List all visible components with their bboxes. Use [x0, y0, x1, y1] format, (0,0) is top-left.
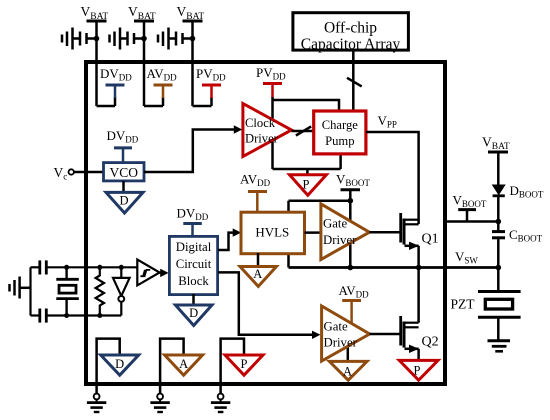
charge pump U2 [314, 111, 366, 154]
svg-text:D: D [115, 357, 124, 371]
block digital circuit [169, 236, 217, 294]
supply V_BAT right bar [488, 152, 508, 186]
node osc top junctions [64, 265, 124, 270]
label C_BOOT [509, 227, 543, 244]
wire gate driver 2 ground stub [347, 340, 350, 362]
svg-text:P: P [241, 357, 248, 371]
wire HVLS to gate driver 1 [305, 231, 322, 234]
svg-text:Gate: Gate [324, 320, 348, 334]
wire digital block to HVLS [218, 228, 241, 250]
svg-text:Pump: Pump [325, 134, 354, 148]
svg-text:Gate: Gate [323, 216, 347, 230]
svg-text:Driver: Driver [324, 335, 358, 349]
op-amp gate driver 1 [321, 204, 370, 260]
wire VCO to clock driver [144, 125, 242, 172]
diode D_BOOT [493, 185, 505, 222]
capacitor C top [31, 260, 138, 274]
wire crystal left rail [29, 267, 31, 315]
svg-text:P: P [414, 363, 421, 377]
off-chip capacitor array box [293, 13, 409, 53]
ground A triangle HVLS [240, 253, 276, 286]
wire clock driver to charge pump [292, 130, 315, 133]
supply DV_DD top [97, 66, 133, 106]
battery B1 V_BAT [62, 21, 107, 106]
supply AV_DD gate driver 2 [339, 283, 370, 332]
ground D triangle digital block [175, 294, 212, 326]
supply AV_DD HVLS [240, 172, 271, 213]
wire P ground rail [273, 153, 341, 176]
label V_BAT 1 [81, 4, 109, 22]
ground P triangle Q2 [399, 360, 438, 380]
svg-text:Digital: Digital [176, 240, 212, 254]
label Q2 [422, 335, 439, 350]
terminal V_c [54, 165, 104, 182]
transistor Q1 [369, 213, 419, 268]
resistor R1 [96, 267, 104, 315]
svg-text:Off-chip: Off-chip [324, 20, 377, 37]
wire digital block to gate driver 2 [218, 272, 320, 339]
supply PV_DD top [193, 66, 227, 106]
svg-text:Q1: Q1 [422, 232, 439, 247]
supply DV_DD VCO [107, 128, 139, 162]
svg-text:A: A [179, 357, 188, 371]
label PZT [451, 297, 476, 312]
battery B2 V_BAT [110, 21, 155, 106]
block HVLS [241, 212, 305, 254]
label Q1 [422, 232, 439, 247]
svg-text:Block: Block [178, 274, 209, 288]
label V_BAT right [482, 135, 510, 153]
bus slash on array wire [347, 78, 362, 87]
supply PV_DD clock driver [256, 65, 286, 98]
label V_BOOT right [453, 193, 487, 210]
transistor Q2 [370, 268, 419, 362]
supply AV_DD top [144, 66, 177, 106]
crystal X1 [56, 267, 79, 315]
svg-text:D: D [119, 194, 128, 208]
supply V_BOOT internal [336, 172, 370, 201]
svg-text:Driver: Driver [245, 131, 279, 145]
node V_BOOT cap junction [496, 219, 502, 225]
svg-text:Q2: Q2 [422, 335, 439, 350]
schmitt trigger U4 [137, 260, 168, 286]
supply V_BOOT right bar [458, 210, 476, 222]
ground rotated crystal [10, 277, 31, 299]
battery B3 V_BAT [158, 21, 203, 106]
svg-text:A: A [343, 364, 352, 378]
pin ground D bottom [87, 339, 139, 412]
wire V_BOOT out of chip [444, 220, 498, 223]
label V_PP [378, 113, 397, 130]
wire PV_DD rail behind clock driver [271, 97, 274, 169]
svg-text:D: D [189, 306, 198, 320]
block VCO [104, 163, 145, 181]
wire V_BOOT rail [289, 199, 351, 202]
label V_BAT 3 [177, 4, 205, 22]
pin ground A bottom [150, 339, 202, 412]
wire PV rail to charge pump top [273, 100, 340, 111]
bus slash clock to pump [296, 126, 311, 135]
supply DV_DD digital block [177, 206, 209, 237]
ground earth PZT [488, 341, 511, 352]
svg-text:Charge: Charge [322, 118, 359, 132]
svg-text:HVLS: HVLS [255, 225, 289, 240]
chip border [86, 62, 445, 384]
svg-text:PZT: PZT [451, 297, 476, 312]
wire behind gate driver 1 to V_SW [349, 201, 352, 268]
label V_SW [455, 249, 478, 266]
ground P triangle charge pump [290, 175, 327, 196]
op-amp clock driver [243, 104, 292, 157]
node osc bottom junctions [64, 313, 102, 318]
wire V_PP to Q1 drain [366, 132, 419, 224]
op-amp gate driver 2 [322, 306, 370, 361]
svg-text:A: A [253, 267, 262, 281]
ground A triangle gate driver 2 [329, 361, 367, 380]
wire behind HVLS to V_SW [287, 201, 290, 268]
capacitor C bottom [31, 309, 122, 323]
piezo element PZT [478, 268, 521, 340]
pin ground P bottom [211, 339, 263, 412]
capacitor C_BOOT [492, 222, 505, 268]
node V_SW junctions [348, 265, 422, 271]
node V_SW PZT junction [496, 265, 502, 271]
svg-text:Clock: Clock [245, 116, 276, 130]
label D_BOOT [510, 183, 544, 200]
label V_BAT 2 [128, 4, 156, 22]
ground D triangle VCO [106, 181, 143, 213]
node V_BOOT junction [348, 198, 354, 204]
svg-text:P: P [303, 178, 310, 192]
inverter U3 [113, 267, 130, 315]
wire V_SW rail [289, 266, 499, 269]
svg-text:Capacitor Array: Capacitor Array [301, 36, 401, 53]
svg-text:Circuit: Circuit [176, 257, 212, 271]
svg-text:VCO: VCO [110, 165, 139, 180]
svg-text:Driver: Driver [323, 233, 357, 247]
wire array to charge pump [352, 52, 355, 111]
